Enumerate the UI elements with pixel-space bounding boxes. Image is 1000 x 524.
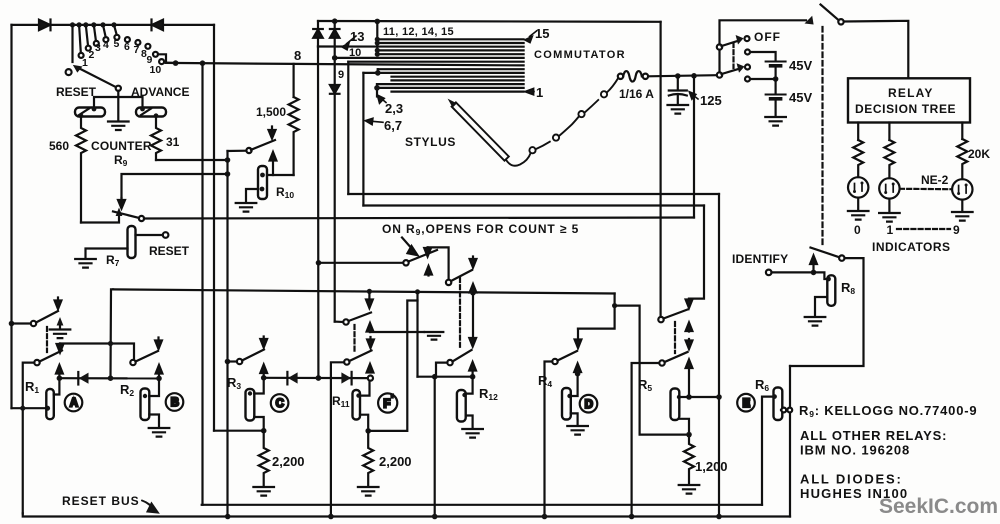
node R5 bottom dot xyxy=(686,432,692,438)
battery contact upper xyxy=(745,50,750,55)
wire seg6-7 tie xyxy=(377,69,379,73)
wire y174 to R7 switch feed xyxy=(122,174,228,198)
capacitor 125 xyxy=(669,76,687,104)
wire x434.7 riser to reset bus xyxy=(434,377,436,517)
svg-text:125: 125 xyxy=(700,93,722,108)
diode C2 pointing right xyxy=(341,372,351,385)
node seg10 dot xyxy=(332,55,338,61)
wire R11 top lead xyxy=(360,381,370,396)
rotary wiper arm with arrowhead xyxy=(73,65,119,88)
switch R5-upper pivot xyxy=(658,317,663,322)
arrow up on F-mid2 lower node xyxy=(470,284,477,293)
wire R3 bottom lead xyxy=(254,417,263,431)
switch F pivot xyxy=(344,359,349,364)
wire vertical x694 battery to W1 xyxy=(693,76,695,218)
commutator segment 2 xyxy=(377,87,524,89)
switch lower battery blade with arrow xyxy=(722,63,745,74)
svg-text:1,200: 1,200 xyxy=(695,459,728,474)
resistor 1500 xyxy=(289,97,299,175)
ground lamp 9 xyxy=(952,200,973,221)
arrow up R10 top lead xyxy=(270,152,277,175)
wire top switch feed xyxy=(720,20,807,44)
svg-text:2,3: 2,3 xyxy=(385,101,403,116)
terminal IDENTIFY xyxy=(766,270,772,276)
node R2 lead dot xyxy=(143,394,147,398)
gang dashed OFF switches xyxy=(732,43,734,68)
wire vertical x719 down xyxy=(718,194,720,517)
circled A xyxy=(65,394,83,412)
node B top junction dot xyxy=(156,376,162,382)
diode 13-B upward xyxy=(330,21,340,46)
arrow up above B lead xyxy=(156,365,163,378)
wire R12 bottom lead to ground xyxy=(466,416,473,429)
wire x417.5 down to W4 xyxy=(416,292,418,377)
svg-text:': ' xyxy=(391,394,394,406)
relay R12 coil xyxy=(457,390,466,422)
wire battery feed horizontal xyxy=(648,75,716,76)
node capacitor feed dot xyxy=(675,73,681,79)
wire diodeA vertical top xyxy=(317,21,319,28)
node R10 left dot xyxy=(260,187,265,192)
rotary contact 1 xyxy=(79,53,84,58)
wire seg9 vertical x348 xyxy=(347,62,349,194)
label RESET BUS with arrow xyxy=(62,494,158,513)
resistor 2200 under R3 xyxy=(259,431,269,486)
wire R4 bottom lead to ground xyxy=(571,413,578,425)
wire between batteries xyxy=(750,67,776,79)
switch lower battery pivot xyxy=(717,72,722,77)
relay R3 coil xyxy=(246,389,255,421)
svg-text:2,200: 2,200 xyxy=(379,454,412,469)
node R6 lead dot xyxy=(772,394,777,399)
commutator segment 5 xyxy=(392,76,524,78)
node R4 lead dot xyxy=(567,394,571,398)
arrow up below R5-upper blade xyxy=(686,323,693,332)
ground R8 xyxy=(805,317,826,326)
wire x318 vertical xyxy=(317,47,320,379)
wire pivot stem and coil tee xyxy=(94,91,143,108)
switch C blade xyxy=(242,350,264,361)
arrow down onto R7 blade xyxy=(118,198,125,209)
rotary rest contact xyxy=(66,69,72,75)
wire R31 bottom to R10 switch xyxy=(156,159,228,161)
gang dashed mid to F switch xyxy=(353,325,355,352)
switch D feed riser xyxy=(545,362,553,517)
wire top-left horizontal bus xyxy=(12,24,215,26)
wire A2 pivot to left riser xyxy=(23,363,35,514)
svg-text:15: 15 xyxy=(535,26,549,41)
diode A-B pointing left xyxy=(78,372,88,385)
svg-text:560: 560 xyxy=(49,139,69,153)
switch R5-upper blade xyxy=(664,310,688,319)
switch F blade xyxy=(349,351,371,362)
node W3 join dot xyxy=(612,303,617,308)
node corner dot y174 xyxy=(225,171,231,177)
diode C1 pointing left xyxy=(287,372,297,385)
node R3 bottom dot xyxy=(261,428,267,434)
wire vertical x227.5 (151-361.5) xyxy=(226,151,228,362)
stylus pencil body xyxy=(448,99,509,161)
svg-text:SeekIC.com: SeekIC.com xyxy=(879,495,998,518)
wire R5-lower pivot riser to reset bus xyxy=(632,363,660,517)
node wiper feed dot xyxy=(70,22,75,27)
commutator segment 1 xyxy=(392,90,524,92)
arrow up above R12 lead xyxy=(469,362,476,377)
diode 13-A upward xyxy=(313,29,323,47)
svg-text:ON R9,OPENS FOR COUNT ≥ 5: ON R9,OPENS FOR COUNT ≥ 5 xyxy=(382,222,579,237)
wire OFF switch riser xyxy=(718,50,720,73)
rotary contact 6 xyxy=(125,37,130,42)
ground capacitor xyxy=(668,105,689,114)
wire mid NC to ground xyxy=(370,331,424,333)
terminal R6 contact circles xyxy=(781,408,792,413)
arrow up at R7 xyxy=(116,208,123,217)
switch B pivot xyxy=(130,360,135,365)
switch A2 pivot xyxy=(34,360,39,365)
arrow label 1 pointer xyxy=(525,88,534,94)
arrow top switch fixed contact xyxy=(805,16,814,25)
wire 1500 resistor feed corner xyxy=(293,64,295,97)
wire R8 top lead xyxy=(814,272,829,279)
ground R4 xyxy=(567,426,588,435)
node contacts 9-10 junction xyxy=(173,60,179,66)
node x719 dot xyxy=(716,394,722,400)
relay R2 coil xyxy=(141,389,150,421)
wire segment-8 long horizontal xyxy=(166,63,524,66)
svg-text:IBM NO. 196208: IBM NO. 196208 xyxy=(800,443,910,458)
arrow down onto R4 blade xyxy=(575,329,582,348)
svg-text:F: F xyxy=(383,398,390,410)
wire contact10 to junction xyxy=(164,61,175,64)
arrow up above C lead xyxy=(260,365,267,378)
node commutator bracket top dot xyxy=(375,19,381,25)
node C mid junction dot x318 xyxy=(316,375,322,381)
wire battery top contact lead xyxy=(750,52,776,60)
commutator segment 11 xyxy=(377,53,523,55)
relay coil RESET (counter R9) xyxy=(75,107,105,119)
svg-text:13: 13 xyxy=(350,29,364,44)
node seg8 corner dot x202.5 xyxy=(200,60,206,66)
switch C feed dot xyxy=(225,359,231,365)
wire vertical x790 to reset bus xyxy=(789,366,791,517)
wire R7 right lead xyxy=(136,234,164,236)
wire R3 top lead xyxy=(254,378,263,394)
node R1 left lead dots xyxy=(20,406,50,411)
arrow down at A2 NO xyxy=(57,344,64,353)
wire R6 right lead xyxy=(781,409,782,411)
node reset bus dots xyxy=(225,514,722,520)
wire vertical x202.5 down to lower bus corner xyxy=(201,63,203,505)
wire left outer vertical xyxy=(10,25,12,408)
resistor 20K xyxy=(957,139,967,179)
svg-text:3: 3 xyxy=(95,42,101,54)
wire commutator top bus y21 xyxy=(318,20,661,23)
switch OFF blade with arrow xyxy=(722,35,744,46)
diode D-mid on top wire xyxy=(152,20,164,31)
relay R11 coil xyxy=(353,390,361,420)
commutator segment 7 xyxy=(378,68,524,70)
svg-text:6: 6 xyxy=(124,41,130,53)
svg-text:2: 2 xyxy=(89,49,95,61)
ground R2 xyxy=(149,428,170,437)
svg-text:RESET: RESET xyxy=(149,244,190,258)
wire W1 long horizontal y218 xyxy=(144,218,694,219)
wire x229.5 riser above C (y174 continuation already) xyxy=(226,362,228,517)
ground 1200 xyxy=(679,485,700,494)
svg-text:10: 10 xyxy=(349,47,361,59)
relay R8 coil xyxy=(827,275,835,306)
relay R7 coil xyxy=(128,226,136,258)
stylus curly cord xyxy=(506,78,618,166)
svg-text:20K: 20K xyxy=(968,147,990,161)
wire R11 bottom lead xyxy=(360,415,368,431)
arrow down onto R5 upper blade xyxy=(686,299,693,308)
wire IDENTIFY switch to R6 contact xyxy=(790,258,864,366)
relay R4 coil xyxy=(562,388,571,420)
ground 2200 F xyxy=(358,487,379,496)
switch R12-3 pivot xyxy=(447,360,452,365)
commutator segment 10 xyxy=(335,57,524,59)
switch IDENTIFY blade xyxy=(811,248,840,258)
rotary contact 4 xyxy=(103,37,108,42)
arrow up below mid blade xyxy=(367,323,374,332)
rotary wiper pivot xyxy=(116,86,121,91)
wire F pivot riser to reset bus xyxy=(331,362,344,516)
switch ON-R9 blade xyxy=(409,250,438,262)
wire R12 top lead xyxy=(466,377,473,394)
switch OFF pivot xyxy=(717,44,722,49)
node R11 bottom dot xyxy=(365,428,371,434)
wire W2 descender x614.6 xyxy=(578,294,615,329)
switch top pivot xyxy=(838,19,843,24)
switch R10 blade xyxy=(251,140,275,150)
wire x473 down with arrow to switch3 xyxy=(469,293,476,347)
ground battery xyxy=(765,117,786,126)
arrow down above R10 blade xyxy=(269,127,276,139)
switch A1 feed dot on left bus xyxy=(9,321,15,327)
ground mid switch xyxy=(425,332,444,340)
node W2 stub T x369 xyxy=(367,289,372,294)
svg-text:1: 1 xyxy=(887,223,894,237)
switch D blade xyxy=(558,351,578,361)
switch R5-lower blade xyxy=(665,352,688,362)
wire contact9 to junction xyxy=(158,54,166,62)
wire right vertical from top bus (x214) xyxy=(213,25,215,431)
resistor 560 xyxy=(76,116,86,223)
wire ON-R9 NO feed L xyxy=(428,247,449,280)
terminal OFF contact xyxy=(745,36,750,41)
node R11 lead dot xyxy=(356,393,360,397)
wire R3 bottom to x214 riser xyxy=(214,430,264,432)
wire lower bus y504.8 xyxy=(202,504,762,506)
wire R5 bottom lead xyxy=(679,419,689,435)
node bracket dots s15 s14 s12 s11 xyxy=(375,37,380,57)
fuse 1/16A squiggle xyxy=(623,71,642,82)
circled D xyxy=(580,395,598,413)
dashed NE-2 link xyxy=(900,188,952,191)
terminal RESET open circle xyxy=(163,232,169,238)
node T at x110 y343.5 xyxy=(108,341,113,346)
node B vertical junction dot xyxy=(108,375,114,381)
wire W2 chain y290 xyxy=(113,289,615,293)
svg-text:9: 9 xyxy=(338,69,344,81)
wire R12-3 pivot to W4 xyxy=(436,363,447,377)
svg-text:2,200: 2,200 xyxy=(272,454,305,469)
wire W-chain y194 xyxy=(348,193,719,195)
switch C pivot xyxy=(237,359,242,364)
node D top junction dot xyxy=(575,371,581,377)
commutator segment 12 xyxy=(377,49,523,51)
svg-text:OFF: OFF xyxy=(754,30,781,44)
svg-text:RELAY: RELAY xyxy=(888,86,934,100)
node R3 lead dot xyxy=(248,391,252,395)
arrow up above D lead xyxy=(574,364,581,374)
svg-text:5: 5 xyxy=(114,38,120,50)
wire stubs to contacts 1-5 xyxy=(79,25,117,53)
gang dashed mid2 to switch3 xyxy=(459,278,461,350)
wire tree column 1 xyxy=(857,123,859,141)
svg-text:A: A xyxy=(70,398,78,410)
node W2 T x417.5 xyxy=(415,289,420,294)
svg-text:ADVANCE: ADVANCE xyxy=(131,85,189,99)
wire x704 down to R5 arrow feed xyxy=(689,206,704,299)
wire wiper feed stub xyxy=(71,25,73,62)
commutator segment 14 xyxy=(377,42,523,44)
wire seg2-3 tie with 2,3 stub xyxy=(376,84,378,96)
wire R8 bottom lead to ground xyxy=(815,297,827,316)
wire R5 top lead xyxy=(680,396,689,398)
rotary contact 5 xyxy=(114,35,119,40)
node R8 top lead dot xyxy=(826,277,831,282)
wire R1 left lead xyxy=(12,407,47,409)
arrow up above F lead xyxy=(367,364,374,373)
arrow down onto ON-R9 blade tip xyxy=(424,247,431,256)
wire R10 left lead to ground xyxy=(246,189,258,202)
ground 2200 C xyxy=(253,487,274,496)
node R1 top junction dot xyxy=(57,375,63,381)
node battery column dot xyxy=(691,73,697,79)
arrow down above F-mid2 blade xyxy=(470,257,477,268)
wire to ON R9 switch xyxy=(319,262,404,264)
switch top blade xyxy=(821,5,840,21)
arrow up above R5 lead xyxy=(686,360,693,398)
node battery mid dot xyxy=(773,76,779,82)
resistor 2200 under R11 xyxy=(363,431,373,486)
wire R2 bottom lead to ground xyxy=(149,415,159,428)
wire y151 to R10 switch xyxy=(228,150,247,153)
switch R10 pivot xyxy=(246,148,251,153)
wire R10 top-right lead xyxy=(267,174,294,176)
svg-text:R9: KELLOGG NO.77400-9: R9: KELLOGG NO.77400-9 xyxy=(799,403,977,419)
wire A-B diode link xyxy=(59,377,159,379)
svg-text:1/16 A: 1/16 A xyxy=(619,87,654,101)
switch R5-lower pivot xyxy=(659,360,664,365)
relay R5 coil xyxy=(671,389,680,421)
wire C-F diode link xyxy=(264,377,368,380)
svg-text:DECISION TREE: DECISION TREE xyxy=(855,102,956,116)
arrow down above A1 blade xyxy=(55,298,62,310)
commutator segment 4 xyxy=(392,79,524,81)
relay coil ADVANCE (counter R9) xyxy=(136,107,166,119)
circled F' xyxy=(378,393,397,412)
terminal F top open circle xyxy=(368,376,373,381)
wire to switch A1 xyxy=(12,322,32,324)
commutator segment 9 xyxy=(348,61,523,63)
svg-text:INDICATORS: INDICATORS xyxy=(872,240,951,254)
wire battery to ground xyxy=(774,100,776,117)
arrow label 2,3 pointer xyxy=(377,95,386,103)
switch R7 blade xyxy=(113,212,140,219)
commutator segment 13 xyxy=(318,45,524,47)
arrow down onto mid switch blade x369 xyxy=(366,291,373,308)
wire R2 top lead xyxy=(149,378,159,396)
wire commutator top corner down x660 xyxy=(659,22,661,320)
fuse right terminal xyxy=(643,74,648,79)
rotary numerals 1-10 xyxy=(82,38,161,76)
wire W2 left corner down x111 xyxy=(111,289,114,378)
wire R11 bottom to x336 riser xyxy=(368,301,417,431)
node diodeB top dot xyxy=(332,18,338,24)
svg-text:RESET: RESET xyxy=(56,85,97,99)
svg-text:E: E xyxy=(743,398,751,410)
svg-text:45V: 45V xyxy=(789,90,812,105)
wire 560 to R7 arrow xyxy=(81,217,119,223)
wire R7 left lead xyxy=(86,249,128,259)
node R5 top junction dot xyxy=(686,394,692,400)
wire commutator left bracket vertical xyxy=(376,21,378,54)
neon lamp 0 xyxy=(848,177,868,197)
switch F-mid2 blade xyxy=(451,270,472,281)
node contact stub dots on top bus xyxy=(77,22,117,27)
svg-text:9: 9 xyxy=(953,223,960,237)
ground R12 xyxy=(462,429,483,438)
circled E xyxy=(737,394,755,412)
switch R12-3 blade xyxy=(453,350,472,362)
wire W-chain y205.5 xyxy=(363,204,704,206)
wire D top lead xyxy=(571,374,578,396)
arrow down above B blade xyxy=(155,338,162,350)
ground lamp 1 xyxy=(879,199,900,222)
arrow label 13 pointer xyxy=(342,36,356,50)
commutator segment 15 xyxy=(377,38,523,40)
gang dashed R5 switches xyxy=(674,322,676,353)
svg-text:IDENTIFY: IDENTIFY xyxy=(732,252,788,266)
svg-text:B: B xyxy=(171,397,179,409)
arrow label 6,7 pointer xyxy=(365,118,383,124)
wire diodeB vertical to seg10 and below xyxy=(334,47,336,85)
ground under wiper tee xyxy=(108,97,129,130)
switch IDENTIFY pivot xyxy=(839,255,844,260)
circled B xyxy=(166,393,184,411)
arrow up below ON-R9 blade xyxy=(425,266,432,276)
node seg2 dot xyxy=(374,85,380,91)
rotary contact 10 xyxy=(159,59,164,64)
svg-text:1,500: 1,500 xyxy=(256,105,286,119)
node R10 lead dot xyxy=(260,173,265,178)
svg-text:RESET BUS: RESET BUS xyxy=(62,494,140,508)
commutator segment 6 xyxy=(363,72,523,74)
battery 45V lower xyxy=(766,79,786,99)
node tee x227.5 y160 xyxy=(225,157,231,163)
ground lamp 0 xyxy=(848,198,869,220)
node W4 dots xyxy=(432,374,476,380)
rotary contact 9 xyxy=(153,52,158,57)
svg-text:45V: 45V xyxy=(789,58,812,73)
wire tree column 2 xyxy=(888,123,890,141)
switch mid blade xyxy=(349,313,372,322)
switch mid pivot xyxy=(343,319,348,324)
switch F-mid2 pivot xyxy=(446,280,451,285)
